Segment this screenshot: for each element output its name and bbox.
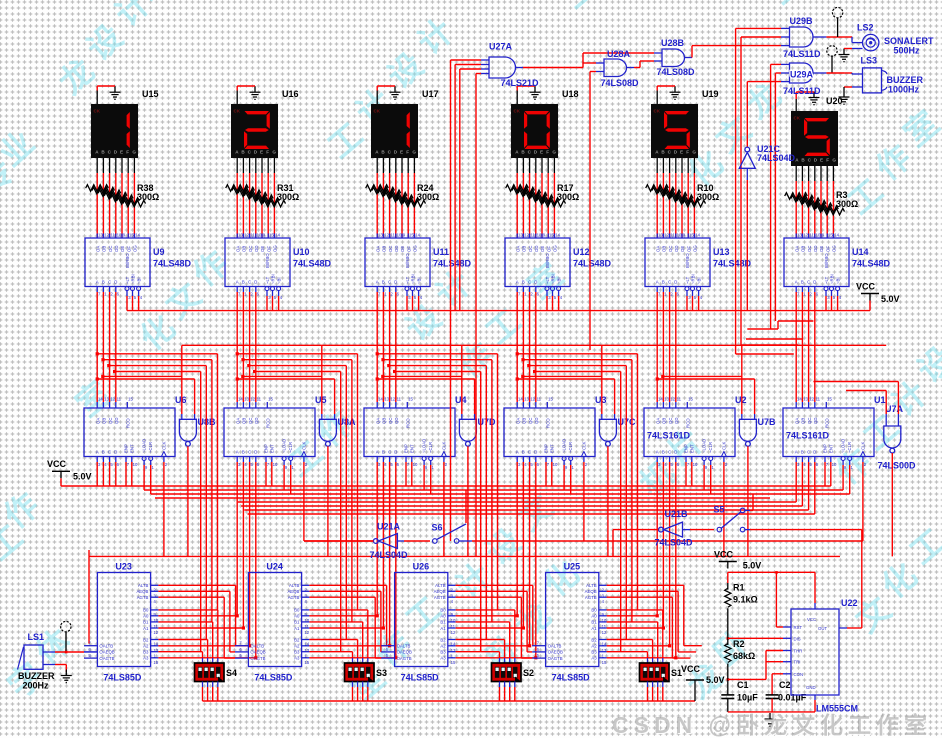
wire U21A input bbox=[397, 540, 404, 542]
svg-text:S3: S3 bbox=[376, 668, 387, 678]
svg-text:ENP: ENP bbox=[124, 444, 129, 453]
svg-text:A0: A0 bbox=[440, 614, 446, 619]
svg-text:14: 14 bbox=[415, 233, 420, 238]
svg-text:B3: B3 bbox=[143, 650, 149, 655]
svg-text:14: 14 bbox=[98, 397, 103, 402]
dip switch S1 bbox=[640, 663, 670, 682]
svg-text:SONALERT: SONALERT bbox=[884, 36, 934, 46]
svg-text:B: B bbox=[102, 280, 105, 285]
svg-text:B: B bbox=[522, 450, 525, 455]
svg-text:E: E bbox=[540, 150, 543, 155]
svg-text:OG: OG bbox=[133, 245, 138, 252]
svg-text:~LT: ~LT bbox=[685, 276, 690, 284]
dip switch S4 bbox=[195, 663, 225, 682]
svg-text:A3: A3 bbox=[143, 656, 149, 661]
ground for U20 CK bbox=[809, 92, 820, 105]
svg-text:OF: OF bbox=[546, 246, 551, 252]
ground 555 bbox=[765, 713, 776, 726]
svg-text:QB: QB bbox=[662, 418, 667, 424]
svg-text:G: G bbox=[552, 150, 556, 155]
svg-text:OB: OB bbox=[102, 246, 107, 252]
svg-text:QB: QB bbox=[801, 418, 806, 424]
svg-text:12: 12 bbox=[250, 397, 255, 402]
svg-text:QD: QD bbox=[674, 418, 679, 424]
svg-text:11: 11 bbox=[117, 397, 122, 402]
wire CK to ground bbox=[656, 91, 658, 105]
svg-text:13: 13 bbox=[98, 233, 103, 238]
svg-text:OC: OC bbox=[528, 246, 533, 252]
nand gate U7D bbox=[459, 419, 476, 446]
svg-text:A: A bbox=[656, 280, 659, 285]
svg-text:12: 12 bbox=[451, 630, 456, 635]
gate input wires bbox=[741, 414, 743, 419]
wire S6 right contact bbox=[459, 540, 472, 542]
wire CK to ground bbox=[236, 91, 238, 105]
svg-text:CK: CK bbox=[794, 116, 801, 121]
svg-text:OAGTB: OAGTB bbox=[99, 656, 114, 661]
svg-text:AEQB: AEQB bbox=[434, 589, 446, 594]
svg-text:B0: B0 bbox=[440, 608, 446, 613]
svg-text:0.01µF: 0.01µF bbox=[778, 693, 807, 703]
svg-text:VCC: VCC bbox=[807, 617, 816, 622]
wires dip to bus bbox=[202, 682, 204, 688]
svg-text:U9: U9 bbox=[153, 247, 165, 257]
svg-text:D: D bbox=[114, 450, 117, 455]
bottom bus y=701 bbox=[203, 700, 696, 702]
svg-text:10: 10 bbox=[397, 233, 402, 238]
svg-text:AGTB: AGTB bbox=[288, 595, 300, 600]
wires counter control pins bbox=[376, 462, 378, 616]
wires comparator B inputs bbox=[158, 609, 217, 611]
svg-text:OB: OB bbox=[242, 246, 247, 252]
wire U28B out bbox=[691, 46, 693, 58]
dip switch S3 bbox=[345, 663, 375, 682]
svg-text:G: G bbox=[132, 150, 136, 155]
wires decoder A-D to counter QA-QD bbox=[656, 292, 658, 402]
wire LS1 pin1 to U23 bbox=[43, 651, 55, 653]
counter U3 74LS161D bbox=[504, 397, 595, 471]
wire S6 top contact bbox=[465, 490, 467, 523]
capacitor C2 0.01uF bbox=[766, 695, 779, 699]
svg-text:15: 15 bbox=[602, 660, 607, 665]
svg-text:OAEQB: OAEQB bbox=[99, 650, 114, 655]
circle node 2 bbox=[827, 46, 837, 56]
svg-text:S4: S4 bbox=[226, 668, 237, 678]
svg-text:10: 10 bbox=[677, 233, 682, 238]
svg-text:LS2: LS2 bbox=[857, 23, 874, 33]
svg-text:U27A: U27A bbox=[489, 42, 513, 52]
wire CON to C2 bbox=[772, 673, 783, 675]
svg-text:B: B bbox=[382, 280, 385, 285]
wires U29A inputs bbox=[771, 63, 781, 65]
svg-text:ENP: ENP bbox=[684, 444, 689, 453]
inverter U21C 74LS04D bbox=[739, 147, 755, 168]
svg-text:U18: U18 bbox=[562, 89, 579, 99]
svg-text:C1: C1 bbox=[737, 680, 749, 690]
vcc symbol top right bbox=[861, 294, 879, 301]
svg-text:BI/RBO: BI/RBO bbox=[265, 253, 270, 268]
svg-text:74LS00D: 74LS00D bbox=[878, 461, 917, 471]
svg-text:11: 11 bbox=[390, 233, 395, 238]
svg-text:CLK: CLK bbox=[860, 442, 865, 450]
svg-text:QD: QD bbox=[813, 418, 818, 424]
wires counter control pins bbox=[656, 462, 658, 616]
svg-text:C: C bbox=[528, 280, 531, 285]
svg-text:U21B: U21B bbox=[665, 509, 689, 519]
ground for U15 bbox=[110, 86, 121, 99]
wire counter CLK bbox=[443, 462, 445, 556]
svg-text:12: 12 bbox=[390, 397, 395, 402]
svg-text:AGTB: AGTB bbox=[434, 595, 446, 600]
svg-text:OA: OA bbox=[95, 246, 100, 252]
svg-text:A: A bbox=[795, 280, 798, 285]
svg-text:~RBI: ~RBI bbox=[410, 274, 415, 284]
svg-text:B0: B0 bbox=[143, 608, 149, 613]
svg-text:TRI: TRI bbox=[794, 660, 801, 665]
svg-text:U19: U19 bbox=[702, 89, 719, 99]
svg-text:A1: A1 bbox=[294, 626, 300, 631]
svg-text:9.1kΩ: 9.1kΩ bbox=[733, 595, 758, 605]
jog wires hours column bbox=[778, 320, 813, 322]
decoder U9 74LS48D bbox=[85, 233, 150, 300]
fan wires counter outputs to gate bbox=[461, 345, 463, 414]
svg-text:B: B bbox=[662, 280, 665, 285]
svg-text:15: 15 bbox=[129, 233, 134, 238]
svg-text:~CLR: ~CLR bbox=[568, 442, 573, 453]
svg-text:~RBI: ~RBI bbox=[829, 274, 834, 284]
ground LS3 bbox=[839, 91, 850, 104]
fan wires counter outputs to comparator bbox=[97, 353, 217, 355]
resistor network R17 300ohm bbox=[506, 158, 566, 238]
wires decoder LT/RBI/BI to bus bbox=[406, 296, 408, 311]
svg-text:OD: OD bbox=[394, 246, 399, 252]
gate output wire bbox=[327, 446, 329, 556]
wire S5 top contact bbox=[745, 509, 750, 511]
svg-text:CK: CK bbox=[514, 109, 521, 114]
svg-text:74LS08D: 74LS08D bbox=[601, 78, 640, 88]
svg-text:12: 12 bbox=[602, 630, 607, 635]
switch S6 bbox=[433, 524, 467, 543]
svg-text:U4: U4 bbox=[455, 395, 467, 405]
svg-text:D: D bbox=[813, 450, 816, 455]
svg-text:CK: CK bbox=[234, 109, 241, 114]
svg-text:C: C bbox=[528, 450, 531, 455]
wires U27A inputs bbox=[451, 59, 482, 61]
wires decoder A-D to counter QA-QD bbox=[236, 292, 238, 402]
svg-text:BI/RBO: BI/RBO bbox=[405, 253, 410, 268]
svg-text:14: 14 bbox=[135, 233, 140, 238]
wire U21B input bbox=[683, 529, 691, 531]
svg-text:ALTB: ALTB bbox=[435, 583, 446, 588]
svg-text:C: C bbox=[388, 280, 391, 285]
svg-text:LS1: LS1 bbox=[28, 632, 45, 642]
svg-text:74LS161D: 74LS161D bbox=[647, 431, 691, 441]
svg-text:13: 13 bbox=[518, 233, 523, 238]
svg-text:B1: B1 bbox=[294, 620, 300, 625]
U7A output wire bbox=[891, 453, 893, 556]
svg-text:11: 11 bbox=[250, 233, 255, 238]
wires counter control pins bbox=[795, 462, 797, 502]
svg-text:OA: OA bbox=[235, 246, 240, 252]
svg-text:10: 10 bbox=[816, 233, 821, 238]
svg-text:AEQB: AEQB bbox=[585, 589, 597, 594]
svg-text:G: G bbox=[412, 150, 416, 155]
wires comparator A inputs bbox=[158, 615, 237, 617]
svg-text:CLK: CLK bbox=[581, 442, 586, 450]
svg-text:ENT: ENT bbox=[409, 444, 414, 453]
clock wire y=556 bbox=[89, 555, 840, 557]
svg-text:A2: A2 bbox=[143, 644, 149, 649]
svg-text:OG: OG bbox=[693, 245, 698, 252]
svg-text:CSDN @卧龙文化工作室: CSDN @卧龙文化工作室 bbox=[612, 712, 932, 738]
svg-text:C: C bbox=[388, 450, 391, 455]
svg-text:QC: QC bbox=[248, 418, 253, 424]
ground for U18 bbox=[530, 86, 541, 99]
comparator U24 74LS85D bbox=[235, 573, 310, 667]
wire THR TRI to cap junction bbox=[728, 678, 766, 680]
wires decoder A-D to counter QA-QD bbox=[96, 292, 98, 402]
svg-text:BI/RBO: BI/RBO bbox=[685, 253, 690, 268]
svg-text:QA: QA bbox=[655, 418, 660, 424]
svg-text:B: B bbox=[662, 450, 665, 455]
svg-text:OALTB: OALTB bbox=[397, 644, 411, 649]
gate input wires bbox=[181, 414, 183, 419]
counter U6 74LS161D bbox=[84, 397, 175, 471]
svg-text:15: 15 bbox=[409, 233, 414, 238]
wire LS3 to ground bbox=[852, 86, 863, 88]
svg-text:13: 13 bbox=[664, 397, 669, 402]
resistor network R10 300ohm bbox=[646, 158, 706, 238]
svg-text:U10: U10 bbox=[293, 247, 310, 257]
svg-text:15: 15 bbox=[549, 233, 554, 238]
svg-text:RCO: RCO bbox=[126, 418, 131, 428]
svg-text:C: C bbox=[807, 450, 810, 455]
comparator U26 74LS85D bbox=[381, 573, 456, 667]
svg-text:12: 12 bbox=[803, 233, 808, 238]
decoder U14 74LS48D bbox=[784, 233, 849, 300]
svg-text:F: F bbox=[266, 150, 269, 155]
svg-text:~BI: ~BI bbox=[276, 277, 281, 284]
svg-text:U26: U26 bbox=[413, 562, 430, 572]
svg-text:15: 15 bbox=[688, 397, 693, 402]
svg-text:11: 11 bbox=[816, 397, 821, 402]
svg-text:11: 11 bbox=[537, 397, 542, 402]
ground for U16 bbox=[250, 86, 261, 99]
svg-text:OUT: OUT bbox=[818, 626, 827, 631]
link wire to next stage bbox=[742, 344, 886, 346]
svg-text:13: 13 bbox=[384, 397, 389, 402]
svg-text:D: D bbox=[254, 450, 257, 455]
svg-text:U3: U3 bbox=[595, 395, 607, 405]
counter U2 74LS161D bbox=[644, 397, 735, 471]
svg-text:12: 12 bbox=[670, 397, 675, 402]
svg-text:OE: OE bbox=[819, 246, 824, 252]
svg-text:~RBI: ~RBI bbox=[130, 274, 135, 284]
svg-text:~LT: ~LT bbox=[545, 276, 550, 284]
svg-text:OALTB: OALTB bbox=[99, 644, 113, 649]
svg-text:10: 10 bbox=[133, 462, 138, 467]
svg-text:A0: A0 bbox=[294, 614, 300, 619]
svg-text:D: D bbox=[674, 450, 677, 455]
svg-text:U5: U5 bbox=[315, 395, 327, 405]
svg-text:~BI: ~BI bbox=[696, 277, 701, 284]
circle node LS1 bbox=[61, 621, 71, 631]
svg-text:74LS48D: 74LS48D bbox=[153, 259, 192, 269]
ground for U17 bbox=[390, 86, 401, 99]
svg-text:E: E bbox=[820, 158, 823, 163]
svg-text:ENP: ENP bbox=[823, 444, 828, 453]
svg-text:10: 10 bbox=[273, 462, 278, 467]
wire U28A out to U28B bbox=[634, 67, 640, 69]
svg-text:14: 14 bbox=[797, 397, 802, 402]
svg-text:QA: QA bbox=[794, 418, 799, 424]
svg-text:CK: CK bbox=[94, 109, 101, 114]
wire S5 right line to 555 out bbox=[745, 529, 750, 531]
nand gate U8B bbox=[179, 419, 196, 446]
svg-text:QB: QB bbox=[242, 418, 247, 424]
resistor network R3 300ohm bbox=[785, 166, 845, 238]
svg-text:LS3: LS3 bbox=[861, 56, 878, 66]
svg-text:74LS48D: 74LS48D bbox=[713, 259, 752, 269]
svg-text:C: C bbox=[668, 280, 671, 285]
svg-text:10: 10 bbox=[413, 462, 418, 467]
wires dip to bus bbox=[499, 682, 501, 688]
svg-text:A1: A1 bbox=[591, 626, 597, 631]
svg-text:14: 14 bbox=[834, 233, 839, 238]
wires decoder A-D to counter QA-QD bbox=[795, 292, 797, 402]
svg-text:OF: OF bbox=[825, 246, 830, 252]
svg-text:E: E bbox=[680, 150, 683, 155]
wires comparator B inputs bbox=[309, 609, 367, 611]
svg-text:D: D bbox=[254, 280, 257, 285]
svg-text:VCC: VCC bbox=[47, 459, 67, 469]
wire GND rail 555 bbox=[727, 699, 729, 712]
wire U21C input down to bus bbox=[746, 168, 748, 180]
svg-text:DIS: DIS bbox=[794, 636, 801, 641]
decoder U12 74LS48D bbox=[505, 233, 570, 300]
svg-text:74LS11D: 74LS11D bbox=[783, 86, 821, 96]
svg-text:OC: OC bbox=[108, 246, 113, 252]
wires dip to bus bbox=[352, 682, 354, 688]
svg-text:ENP: ENP bbox=[264, 444, 269, 453]
svg-text:74LS161D: 74LS161D bbox=[786, 431, 830, 441]
svg-text:U22: U22 bbox=[841, 598, 858, 608]
svg-text:OC: OC bbox=[388, 246, 393, 252]
svg-text:OE: OE bbox=[260, 246, 265, 252]
svg-text:OD: OD bbox=[674, 246, 679, 252]
svg-text:A2: A2 bbox=[294, 644, 300, 649]
svg-text:D: D bbox=[394, 280, 397, 285]
wires counter control pins bbox=[236, 462, 238, 616]
svg-text:13: 13 bbox=[524, 397, 529, 402]
decoder U13 74LS48D bbox=[645, 233, 710, 300]
svg-text:VCC: VCC bbox=[681, 664, 701, 674]
wire R2 to C1 bbox=[727, 664, 729, 695]
wires dip to bus bbox=[647, 682, 649, 688]
svg-text:A: A bbox=[236, 450, 239, 455]
svg-text:13: 13 bbox=[244, 397, 249, 402]
svg-text:11: 11 bbox=[110, 233, 115, 238]
svg-text:U11: U11 bbox=[433, 247, 449, 257]
wire counter CLK bbox=[163, 462, 165, 556]
svg-text:VCC: VCC bbox=[714, 550, 734, 560]
and gate U29B 74LS11D bbox=[790, 27, 814, 47]
svg-text:11: 11 bbox=[670, 233, 675, 238]
ground LS2 bbox=[839, 49, 850, 62]
svg-text:BI/RBO: BI/RBO bbox=[824, 253, 829, 268]
svg-text:ENT: ENT bbox=[269, 444, 274, 453]
wires comparator outputs cascade bbox=[607, 584, 684, 586]
svg-text:15: 15 bbox=[827, 397, 832, 402]
svg-text:GND: GND bbox=[806, 685, 816, 690]
svg-text:OG: OG bbox=[553, 245, 558, 252]
svg-text:OB: OB bbox=[382, 246, 387, 252]
svg-text:11: 11 bbox=[397, 397, 402, 402]
wire U20 CK to ground bbox=[795, 99, 797, 111]
svg-text:OD: OD bbox=[813, 246, 818, 252]
svg-text:14: 14 bbox=[555, 233, 560, 238]
svg-text:12: 12 bbox=[244, 233, 249, 238]
svg-text:~LT: ~LT bbox=[824, 276, 829, 284]
svg-text:5.0V: 5.0V bbox=[706, 675, 725, 685]
svg-text:C: C bbox=[108, 280, 111, 285]
svg-text:R1: R1 bbox=[733, 583, 745, 593]
svg-text:OE: OE bbox=[120, 246, 125, 252]
svg-text:OAEQB: OAEQB bbox=[397, 650, 412, 655]
and gate U28A 74LS08D bbox=[604, 59, 627, 77]
svg-text:U21A: U21A bbox=[377, 522, 401, 532]
svg-text:15: 15 bbox=[268, 397, 273, 402]
svg-text:A0: A0 bbox=[591, 614, 597, 619]
gate input wires bbox=[321, 414, 323, 419]
svg-text:OD: OD bbox=[114, 246, 119, 252]
svg-text:U7A: U7A bbox=[885, 404, 904, 414]
link wire to next stage bbox=[322, 344, 462, 346]
wires decoder A-D to counter QA-QD bbox=[376, 292, 378, 402]
wire CK to ground bbox=[516, 91, 518, 105]
7-segment display U18 bbox=[511, 104, 558, 158]
svg-text:CLK: CLK bbox=[441, 442, 446, 450]
svg-text:11: 11 bbox=[677, 397, 682, 402]
comparator U23 74LS85D bbox=[84, 573, 159, 667]
svg-text:U13: U13 bbox=[713, 247, 730, 257]
svg-text:11: 11 bbox=[530, 233, 535, 238]
svg-text:13: 13 bbox=[378, 233, 383, 238]
svg-text:OE: OE bbox=[680, 246, 685, 252]
svg-text:A: A bbox=[236, 280, 239, 285]
bus wire y=310 bbox=[127, 310, 870, 312]
wire vcc left to rail bbox=[60, 478, 62, 486]
svg-text:U6: U6 bbox=[175, 395, 187, 405]
svg-text:QA: QA bbox=[235, 418, 240, 424]
svg-text:S5: S5 bbox=[714, 505, 725, 515]
link wire to next stage bbox=[602, 344, 742, 346]
svg-text:OC: OC bbox=[668, 246, 673, 252]
svg-text:15: 15 bbox=[408, 397, 413, 402]
svg-text:D: D bbox=[674, 280, 677, 285]
sonalert LS2 bbox=[863, 34, 879, 50]
wires decoder LT/RBI/BI to bus bbox=[546, 296, 548, 311]
svg-text:A1: A1 bbox=[440, 626, 446, 631]
svg-text:15: 15 bbox=[689, 233, 694, 238]
svg-text:A3: A3 bbox=[440, 656, 446, 661]
gate output wire bbox=[607, 446, 609, 556]
svg-text:OC: OC bbox=[248, 246, 253, 252]
svg-text:OAEQB: OAEQB bbox=[548, 650, 563, 655]
svg-text:A: A bbox=[96, 450, 99, 455]
svg-text:VCC: VCC bbox=[856, 282, 876, 292]
wire y556 left end hook bbox=[88, 550, 90, 556]
